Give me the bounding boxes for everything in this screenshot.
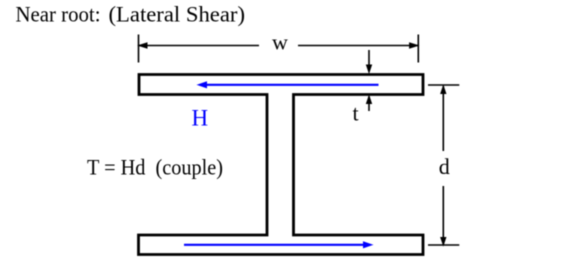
- svg-text:T = Hd (couple): T = Hd (couple): [87, 155, 223, 180]
- svg-text:w: w: [272, 30, 288, 55]
- svg-text:(Lateral Shear): (Lateral Shear): [109, 2, 246, 27]
- svg-text:H: H: [192, 106, 209, 131]
- svg-text:d: d: [439, 154, 450, 179]
- svg-text:Near root:: Near root:: [16, 2, 101, 27]
- svg-text:t: t: [353, 101, 359, 126]
